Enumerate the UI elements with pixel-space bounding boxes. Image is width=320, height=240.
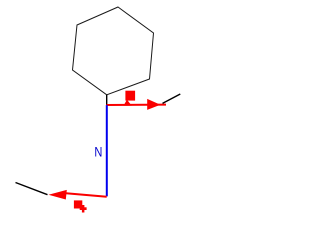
node O bottom charge cross vertical [82, 205, 85, 213]
node O ester bottom label blob [74, 200, 82, 208]
wire wedge bond top arm [147, 99, 160, 110]
node O carbonyl top label blob [125, 91, 135, 101]
ring C6 cyclohexane [73, 7, 154, 95]
wire O tail wedge top [124, 100, 132, 106]
node O bottom charge cross horizontal [80, 207, 87, 210]
wire top arm red horizontal [106, 104, 166, 106]
wire chain vertical blue N bonds [106, 105, 108, 196]
wire methyl stub bottom left [16, 183, 48, 195]
svg-text:N: N [94, 143, 102, 159]
wire wedge bond bottom arm [49, 190, 67, 200]
wire bottom arm red sloped [66, 193, 107, 197]
wire methyl stub top right [163, 94, 181, 103]
wire ring to junction [106, 95, 108, 105]
